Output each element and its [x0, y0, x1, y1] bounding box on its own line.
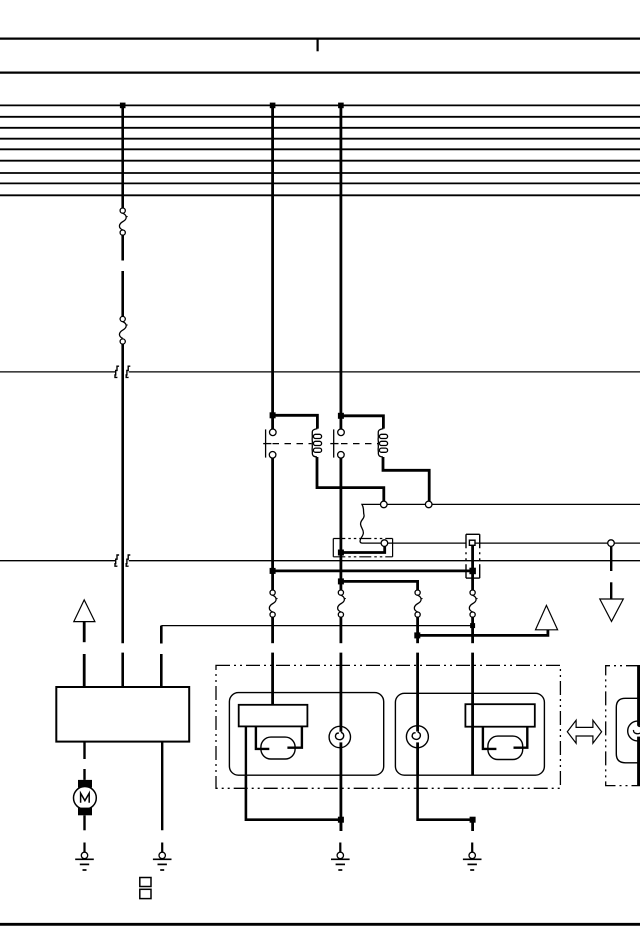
wire: control unit output 2 — [161, 742, 163, 831]
wire: thick jumper A y=570.9 — [273, 570, 473, 573]
node: bus tap junction left — [120, 103, 126, 109]
wire: arrow stem to control unit — [83, 622, 86, 643]
wire: thick jumper B2 to page arrow — [417, 630, 548, 636]
wire: thick link V1b to relay2 drop — [341, 546, 385, 552]
node: junction B2 — [414, 632, 420, 638]
wire: thin net from control unit to F6 drop — [161, 625, 472, 627]
wire: arrow stem after gap — [83, 654, 86, 687]
headlamp LH bulb capsule — [261, 737, 295, 759]
wire: connector block drop to fuse row — [471, 545, 474, 590]
wire: horizontal net at y=371.9 right segment — [129, 371, 640, 373]
node: junction B left — [338, 578, 344, 584]
wire: drop after harness gap into control unit — [121, 653, 124, 687]
motor M brush top — [78, 780, 92, 788]
wire: between fusible links — [121, 235, 124, 260]
node: bus tap junction right — [338, 103, 344, 109]
wire: opposite lamp feed — [637, 666, 640, 726]
relay 1 contact tick — [263, 443, 271, 445]
wire: after gap down to second link — [121, 271, 124, 316]
wire: relay 2 coil feed — [341, 416, 384, 429]
relay 2 coil — [378, 429, 387, 457]
fuse F3 — [269, 590, 277, 617]
wire: horizontal net L1 at y=560.7 left segment — [0, 560, 116, 562]
ground G4 — [463, 843, 482, 871]
fusible link F1 — [119, 208, 127, 235]
connector block J1 terminal square — [469, 540, 475, 545]
wire: stem after gap — [610, 582, 612, 599]
relay 1 contact bar — [265, 429, 267, 457]
wire: RH drop to ground — [471, 820, 474, 831]
node: relay 1 branch junction — [270, 412, 276, 418]
flexible lead from V1 down to V1b — [360, 504, 381, 543]
wire: LH ground link — [246, 776, 341, 820]
fuse F6 — [469, 590, 477, 617]
wire: bus drop to relay 2 (x=340.9) — [339, 105, 342, 429]
second frame line — [0, 71, 640, 73]
page arrow triangle up right — [536, 605, 558, 629]
lamp housing RH — [395, 693, 544, 775]
bulb RH filament curl — [412, 732, 420, 739]
bus line 9 — [0, 194, 640, 196]
bus line 5 — [0, 148, 640, 150]
wire: motor to ground — [83, 815, 85, 830]
headlamp RH bulb capsule — [488, 736, 523, 759]
bulb LH outer circle — [329, 726, 350, 747]
connector terminal circle right — [608, 540, 615, 547]
node: junction A right — [469, 568, 476, 575]
headlamp RH filament leg right — [514, 727, 528, 748]
wire: F6 after gap through lamp RH — [471, 653, 474, 776]
node: junction at x=340.9 y=552.5 — [338, 550, 344, 556]
connector pass glyph left (y=371.9) — [115, 366, 119, 377]
wire: control unit pin 3 riser — [160, 626, 163, 644]
ground G2 — [153, 843, 172, 871]
harness double arrow — [567, 720, 601, 743]
wire: output 1 after gap to motor — [83, 769, 85, 780]
wire: relay 1 contact output drop — [271, 458, 274, 590]
wire: horizontal net L1 right segment — [129, 560, 640, 562]
control unit box — [56, 687, 189, 742]
relay 2 contact tick — [330, 443, 338, 445]
relay 1 contact terminal bottom — [269, 452, 276, 459]
wire: control unit output 1 — [83, 742, 85, 759]
wire: F3 output to harness gap — [271, 617, 274, 643]
wire: bulb LH output — [339, 742, 342, 831]
wire: F6 output to harness gap — [471, 617, 474, 643]
node: relay 2 branch junction — [338, 413, 344, 419]
wire: thin net between V1 and V2 — [387, 503, 425, 505]
connector terminal circle V2 — [425, 501, 432, 508]
connector pass glyph left (y=560.7) — [115, 555, 119, 566]
headlamp LH terminal block — [239, 705, 308, 727]
node: bus tap junction mid — [270, 103, 276, 109]
wire: thick jumper B y=581.4 — [341, 581, 418, 590]
wire: thin net from V2 to page edge — [432, 503, 640, 505]
shield dash-dot box small — [333, 539, 392, 557]
connector terminal circle V1b — [381, 540, 388, 547]
wire: RH ground link — [418, 775, 473, 820]
node: junction A left — [270, 568, 276, 574]
headlamp RH terminal block — [465, 704, 534, 727]
bus line 4 — [0, 138, 640, 140]
wire: opposite lamp output — [637, 737, 640, 786]
connector pass glyph right (y=560.7) — [126, 555, 130, 566]
opposite bulb curl — [633, 726, 640, 734]
bulb RH outer circle — [406, 726, 428, 748]
relay 1 mechanical dashed link — [273, 443, 312, 445]
node: junction LH ground — [338, 817, 344, 823]
page arrow triangle down — [600, 599, 624, 621]
bus line 8 — [0, 182, 640, 184]
bottom frame line — [0, 923, 640, 926]
fuse F4 — [338, 590, 346, 617]
frame tick — [317, 39, 319, 52]
wire: F5 after gap into bulb RH — [416, 653, 419, 732]
lamp housing LH — [229, 693, 383, 776]
relay 2 mechanical dashed link — [341, 443, 378, 445]
wire: F4 after gap into bulb LH — [339, 653, 342, 732]
bus line 3 — [0, 127, 640, 129]
wire: long drop from F2 to control unit — [121, 344, 124, 643]
opposite lamp dash-dot box (page edge) — [606, 666, 640, 786]
wire: F4 output to harness gap — [339, 617, 342, 643]
opposite bulb circle — [628, 721, 640, 741]
headlamp LH filament leg left — [256, 726, 269, 749]
motor M brush bottom — [78, 808, 92, 816]
bus line 2 — [0, 116, 640, 118]
bus line 1 — [0, 104, 640, 106]
wire: control unit pin 3 after gap — [160, 654, 163, 687]
wire: headlamp LH return — [245, 726, 247, 775]
bulb LH filament curl — [335, 732, 343, 739]
wire: terminal circle drop to page arrow down — [610, 546, 612, 571]
ground G3 — [331, 843, 350, 871]
top frame line — [0, 37, 640, 39]
node: junction thin net at F6 drop — [470, 623, 475, 628]
wire: relay 1 coil feed — [273, 415, 318, 428]
wire: feed from bus to fusible link (x=122.7) — [121, 105, 124, 208]
wire: relay 2 coil to connector circle — [383, 457, 429, 501]
motor M label — [81, 793, 90, 803]
relay 2 contact bar — [333, 429, 335, 457]
wire: LH drop to ground — [339, 820, 342, 831]
connector terminal circle V1 — [381, 501, 388, 508]
relay 1 contact terminal top — [270, 429, 277, 436]
ground G1 — [75, 843, 94, 871]
wire: horizontal net at y=371.9 left segment — [0, 371, 116, 373]
wire: net L2 from connector block to terminal circle — [475, 542, 608, 544]
wire: F3 after gap into lamp LH — [271, 653, 274, 705]
fuse F5 — [414, 590, 422, 617]
node: junction RH ground — [470, 817, 476, 823]
opposite lamp housing partial — [616, 698, 640, 763]
relay 2 contact terminal bottom — [338, 452, 345, 459]
connector code squares — [140, 878, 151, 887]
headlamp RH filament leg left — [483, 727, 497, 749]
headlamp assembly dash-dot box LH/RH — [216, 665, 560, 788]
connector block J1 outline — [466, 534, 480, 578]
bus line 7 — [0, 172, 640, 174]
wire: net L2 to page edge — [614, 542, 640, 544]
wire: relay 1 coil to connector circle — [317, 457, 384, 501]
fusible link F2 — [119, 316, 127, 344]
connector pass glyph right (y=371.9) — [126, 366, 130, 377]
wire: bus drop to relay 1 (x=272.6) — [271, 105, 274, 429]
wire: bulb RH output — [416, 742, 419, 775]
motor M body — [74, 787, 97, 810]
wire: relay 2 contact output drop — [339, 458, 342, 590]
wire: F5 output to harness gap — [416, 617, 419, 643]
wire: net L2 from V1b to connector block — [388, 542, 467, 544]
relay 1 coil — [312, 429, 321, 457]
page arrow triangle up left — [74, 600, 95, 622]
bus line 6 — [0, 160, 640, 162]
headlamp LH filament leg right — [287, 726, 302, 747]
relay 2 contact terminal top — [338, 429, 345, 436]
